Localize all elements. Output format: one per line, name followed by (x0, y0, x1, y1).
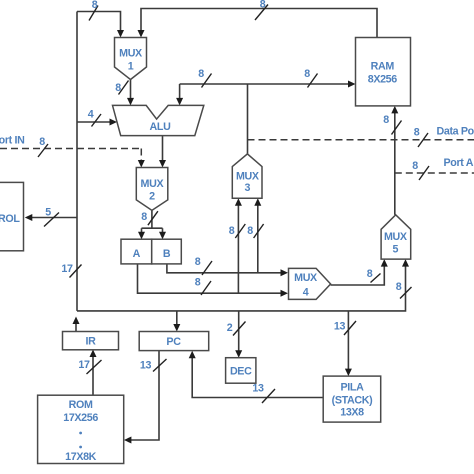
wire MUX1 output to ALU (130, 80, 132, 99)
svg-text:17: 17 (61, 263, 73, 275)
DEC box (226, 358, 256, 384)
slash 8 b line (202, 261, 212, 275)
wire ROM to IR (92, 356, 94, 395)
wire bus to DEC (238, 311, 240, 351)
wire bus to PC (176, 311, 178, 325)
svg-text:8: 8 (396, 281, 402, 293)
svg-text:MUX: MUX (384, 231, 408, 243)
svg-text:ALU: ALU (150, 121, 172, 133)
net Data Port (248, 139, 474, 141)
arrow IR to bus (73, 317, 80, 325)
slash 13 pc out (153, 359, 167, 372)
wire main bus to MUX5 (77, 266, 406, 311)
slash 8 data port (418, 133, 428, 147)
arrow into MUX3 left (235, 198, 242, 206)
svg-text:8: 8 (198, 68, 204, 80)
register B (152, 239, 182, 264)
svg-text:8: 8 (304, 68, 310, 80)
svg-text:8: 8 (115, 82, 121, 94)
wire long left vertical (76, 12, 78, 311)
arrow into MUX5 left (381, 259, 388, 267)
CONTROL unit box (0, 182, 24, 250)
svg-text:13: 13 (334, 321, 346, 333)
arrow into ALU top-right (176, 98, 183, 106)
wire top-left elbow to MUX1 (77, 12, 121, 31)
svg-text:2: 2 (227, 322, 233, 334)
node MUX3 output up (247, 84, 249, 154)
svg-text:B: B (163, 248, 171, 260)
slash 8 ram bottom (392, 121, 402, 135)
svg-text:13: 13 (140, 360, 152, 372)
wire bus to PILA (347, 311, 349, 369)
svg-text:3: 3 (244, 182, 250, 194)
boxes (0, 38, 411, 464)
slash 13 pila-pc (262, 389, 275, 403)
arrowheads (25, 30, 409, 444)
wire MUX3 right input (257, 205, 259, 273)
wire RAM top to MUX1 right input (141, 9, 377, 38)
arrow into ALU top-left (127, 98, 134, 106)
RAM 8X256 box (356, 38, 411, 106)
svg-text:4: 4 (88, 109, 94, 121)
svg-text:8: 8 (195, 277, 201, 289)
svg-text:8: 8 (367, 268, 373, 280)
wire horizontal bus to RAM data in (180, 83, 348, 85)
svg-text:RAM: RAM (371, 61, 395, 73)
IR register box (63, 332, 119, 350)
wire A output to MUX4 (138, 264, 282, 293)
svg-text:MUX: MUX (236, 171, 260, 183)
PC register box (139, 332, 209, 351)
svg-text:(STACK): (STACK) (332, 395, 373, 407)
ROM box (38, 395, 124, 463)
arrow into B register (159, 232, 166, 240)
slash 13 bus-pila (344, 321, 356, 335)
slash 5 control (44, 213, 59, 227)
svg-text:8: 8 (195, 256, 201, 268)
arrow into PILA (345, 369, 352, 377)
svg-text:PILA: PILA (341, 382, 365, 394)
wire MUX5 output to RAM bottom (394, 113, 396, 215)
svg-text:CONTROL: CONTROL (0, 213, 20, 225)
svg-text:MUX: MUX (141, 178, 165, 190)
svg-text:8: 8 (247, 225, 253, 237)
slash 8 alu-ram left (202, 74, 212, 88)
arrow into MUX2 right (159, 160, 166, 168)
svg-text:A: A (133, 248, 141, 260)
slash 8 port a (419, 166, 429, 180)
slash 8 alu-ram right (308, 74, 318, 88)
svg-text:17X256: 17X256 (63, 412, 98, 424)
svg-text:8: 8 (141, 211, 147, 223)
svg-text:PC: PC (166, 336, 181, 348)
wire MUX4 output to MUX5 (331, 266, 385, 285)
svg-text:8: 8 (39, 136, 45, 148)
svg-text:MUX: MUX (294, 272, 318, 284)
svg-text:5: 5 (45, 207, 51, 219)
wire MUX2 output split to A B (142, 210, 163, 232)
svg-text:13X8: 13X8 (340, 407, 364, 419)
wire PC to ROM (131, 351, 159, 440)
slash 17 left vertical (70, 265, 82, 278)
arrow into ALU left (4-bit) (110, 119, 118, 126)
net Port A (395, 172, 474, 174)
arrow into MUX3 right (254, 198, 261, 206)
arrow into MUX1 right (138, 30, 145, 38)
svg-text:8: 8 (229, 225, 235, 237)
slash 8 mux4-mux5 (371, 274, 381, 283)
mux MUX3 (232, 154, 262, 198)
slash 8 top-left (89, 6, 98, 21)
svg-text:2: 2 (149, 191, 155, 203)
svg-text:5: 5 (392, 244, 398, 256)
arrow into ROM (124, 437, 131, 444)
wire ALU 4-bit input (77, 121, 110, 123)
wire to CONTROL (32, 217, 77, 219)
svg-text:8: 8 (260, 0, 266, 11)
arrow into PC bottom (189, 351, 196, 359)
wire MUX3 left input (237, 205, 239, 293)
arrow into CONTROL (25, 214, 33, 221)
wire ALU output to MUX2 (162, 136, 164, 161)
blue width labels (39, 0, 420, 395)
svg-text:8X256: 8X256 (368, 74, 398, 86)
slash 4 ALU in (92, 114, 102, 127)
svg-text:8: 8 (414, 127, 420, 139)
slash 8 port in (38, 144, 48, 157)
arrow into A register (138, 232, 145, 240)
arrow into MUX4 lower (281, 290, 289, 297)
rom ellipsis dots (79, 432, 82, 449)
svg-text:17X8K: 17X8K (65, 451, 97, 463)
alu ALU trapezoid (113, 105, 204, 135)
slash 17 rom-ir (87, 360, 102, 374)
arrow into IR (90, 350, 97, 358)
wire B output to MUX4 (167, 264, 281, 273)
svg-text:IR: IR (86, 336, 97, 348)
arrow into RAM bottom (391, 106, 398, 114)
mux MUX2 (136, 168, 168, 211)
svg-text:17: 17 (78, 359, 90, 371)
svg-text:8: 8 (92, 0, 98, 11)
svg-text:8: 8 (412, 160, 418, 172)
slash 8 mux3 right (254, 224, 264, 238)
slash 8 bus-mux5 (400, 287, 412, 299)
mux MUX4 (289, 268, 331, 299)
mux MUX5 (381, 215, 411, 259)
arrow into RAM left (348, 81, 356, 88)
svg-text:DEC: DEC (230, 366, 252, 378)
PILA STACK box (323, 376, 381, 422)
register A (121, 239, 152, 264)
svg-text:Port IN: Port IN (0, 135, 25, 147)
svg-text:Data Port: Data Port (437, 126, 474, 138)
arrow into MUX5 right (402, 259, 409, 267)
wire ALU right input (179, 84, 181, 98)
mux MUX1 (115, 38, 147, 80)
net Port IN (0, 149, 141, 162)
dashed nets (0, 140, 474, 173)
arrow into MUX1 left (117, 30, 124, 38)
slash 8 MUX1 out (119, 81, 129, 95)
slash 2 bus-dec (233, 322, 246, 336)
svg-text:4: 4 (303, 287, 309, 299)
svg-text:MUX: MUX (119, 48, 143, 60)
svg-text:1: 1 (128, 61, 134, 73)
wire IR to bus (75, 323, 77, 332)
svg-text:ROM: ROM (69, 399, 93, 411)
wire PILA to PC (192, 358, 323, 398)
arrow into DEC (235, 350, 242, 358)
slash 8 mux3 left (235, 224, 245, 238)
arrow into PC top (173, 324, 180, 332)
bus-width slash marks (38, 5, 429, 404)
svg-text:Port A: Port A (444, 157, 474, 169)
slash 8 a line (201, 281, 211, 295)
arrow into MUX2 left (Port IN) (138, 160, 145, 168)
slash 8 mux2 out (148, 211, 158, 225)
svg-text:8: 8 (383, 114, 389, 126)
arrow into MUX4 upper (281, 269, 289, 276)
svg-text:13: 13 (252, 383, 264, 395)
slash 8 top-center (255, 5, 268, 21)
